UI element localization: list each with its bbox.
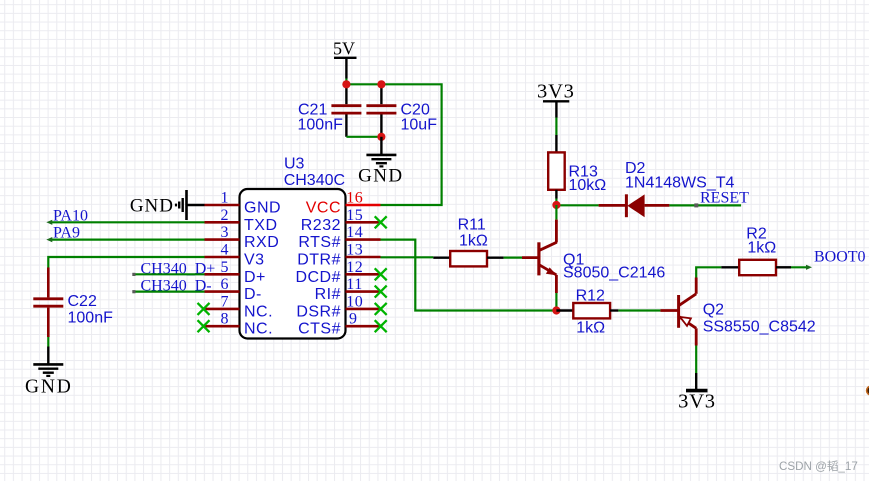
net label anchor dot RESET — [694, 203, 698, 207]
svg-text:10kΩ: 10kΩ — [569, 177, 607, 194]
svg-text:5V: 5V — [333, 39, 355, 59]
svg-text:R12: R12 — [576, 288, 605, 305]
wire Q1 emitter to node B — [555, 293, 557, 311]
svg-text:RXD: RXD — [244, 234, 279, 251]
transistor Q1 S8050 — [522, 220, 665, 293]
junction node A — [552, 201, 560, 209]
pin 14 RTS# — [298, 224, 380, 251]
svg-text:R11: R11 — [458, 217, 486, 234]
power port 3V3 top — [537, 81, 575, 118]
svg-text:1kΩ: 1kΩ — [747, 239, 776, 256]
svg-text:DCD#: DCD# — [295, 269, 341, 286]
svg-text:1kΩ: 1kΩ — [459, 233, 488, 250]
svg-text:3: 3 — [221, 224, 229, 241]
wire CH340_D- to pin 6 — [134, 291, 205, 293]
junction dot 5V rail right — [377, 80, 385, 88]
no-connect X pin 15 — [375, 216, 387, 228]
wire PA9 to pin 3 — [50, 239, 205, 241]
wire R11 to Q1 base — [504, 257, 522, 259]
junction dot 5V rail left — [342, 80, 350, 88]
svg-text:RI#: RI# — [315, 286, 341, 303]
svg-text:10uF: 10uF — [401, 117, 438, 134]
svg-text:DTR#: DTR# — [297, 252, 341, 269]
capacitor C20 — [366, 84, 437, 137]
svg-text:GND: GND — [358, 166, 403, 187]
svg-text:1kΩ: 1kΩ — [576, 320, 605, 337]
svg-text:1: 1 — [221, 190, 229, 207]
svg-text:10: 10 — [346, 293, 363, 310]
svg-text:8: 8 — [221, 311, 229, 328]
ground GND bottom left — [25, 347, 73, 398]
ground GND at pin 1 (rotated earth) — [130, 190, 205, 220]
svg-text:NC.: NC. — [244, 303, 273, 320]
wire R13 to node A — [555, 199, 557, 206]
wire CH340_D+ to pin 5 — [134, 273, 205, 275]
transistor Q2 SS8550 — [660, 278, 815, 346]
svg-text:13: 13 — [346, 242, 363, 259]
svg-text:15: 15 — [346, 207, 363, 224]
svg-text:S8050_C2146: S8050_C2146 — [563, 265, 665, 282]
svg-text:SS8550_C8542: SS8550_C8542 — [703, 319, 816, 336]
IC U3 CH340C body — [240, 189, 346, 339]
pin 12 DCD# — [295, 259, 380, 286]
svg-text:4: 4 — [221, 242, 229, 259]
svg-text:9: 9 — [349, 311, 357, 328]
wire-end dot CH340_D+ — [132, 273, 135, 276]
svg-text:VCC: VCC — [306, 200, 341, 217]
wire top rail to pin 16 — [346, 84, 441, 205]
no-connect X pin 9 — [375, 320, 387, 332]
wire-end arrow BOOT0 — [806, 265, 812, 270]
pin 13 DTR# — [297, 242, 380, 269]
svg-text:V3: V3 — [244, 252, 265, 269]
svg-text:RESET: RESET — [700, 189, 749, 206]
pin 3 RXD — [205, 224, 280, 251]
svg-text:Q2: Q2 — [703, 302, 724, 319]
svg-text:GND: GND — [244, 200, 281, 217]
svg-text:BOOT0: BOOT0 — [814, 249, 866, 266]
svg-text:D-: D- — [244, 286, 262, 303]
svg-text:5: 5 — [221, 259, 229, 276]
svg-text:DSR#: DSR# — [296, 303, 341, 320]
wire PA10 to pin 2 — [50, 221, 205, 223]
wire node A to Q1 collector — [555, 205, 557, 220]
pin 1 GND — [205, 190, 282, 217]
wire D2 to RESET — [669, 204, 741, 206]
wire pin 14 down to node B — [381, 240, 557, 311]
wire 5V to rail — [345, 79, 347, 85]
pin 9 CTS# — [298, 311, 380, 338]
pin 11 RI# — [315, 276, 381, 303]
pin 10 DSR# — [296, 293, 380, 320]
wire Q2 collector up — [696, 267, 721, 277]
svg-text:CSDN @韬_17: CSDN @韬_17 — [779, 460, 858, 473]
svg-text:11: 11 — [346, 276, 362, 293]
wire-end arrow PA10 — [46, 220, 52, 225]
resistor R11 — [433, 217, 503, 267]
svg-text:U3: U3 — [284, 155, 305, 172]
junction node B — [552, 306, 560, 314]
svg-text:R232: R232 — [301, 217, 341, 234]
svg-text:7: 7 — [221, 293, 229, 310]
pin 2 TXD — [205, 207, 278, 234]
diode D2 — [599, 160, 735, 217]
svg-text:GND: GND — [130, 196, 174, 217]
no-connect X pin 7 — [198, 303, 210, 315]
no-connect X pin 11 — [375, 286, 387, 298]
wire Q2 emitter to 3V3 — [695, 346, 697, 374]
svg-text:3V3: 3V3 — [537, 81, 575, 103]
wire capacitor bottom rail — [346, 136, 381, 138]
no-connect X pin 12 — [375, 268, 387, 280]
power port 3V3 bottom (bar) — [678, 373, 716, 413]
svg-text:GND: GND — [25, 377, 73, 398]
capacitor C21 — [298, 84, 362, 137]
watermark logo dot — [867, 386, 869, 395]
wire pin 13 to R11 — [381, 256, 434, 258]
wire node A to D2 — [556, 204, 598, 206]
svg-text:12: 12 — [346, 259, 363, 276]
wire-end arrow PA9 — [46, 237, 52, 242]
svg-text:RTS#: RTS# — [298, 234, 341, 251]
svg-text:100nF: 100nF — [68, 310, 114, 327]
junction dot cap bottom — [377, 133, 385, 141]
wire C22 to ground — [47, 337, 49, 347]
wire R12 to Q2 base — [618, 309, 660, 311]
no-connect X pin 8 — [198, 320, 210, 332]
wire pin 4 to C22 — [48, 257, 204, 268]
svg-text:2: 2 — [221, 207, 229, 224]
pin 15 R232 — [301, 207, 381, 234]
ground GND top — [358, 137, 403, 187]
svg-text:CTS#: CTS# — [298, 321, 341, 338]
svg-text:6: 6 — [221, 276, 229, 293]
pin 7 NC — [205, 293, 274, 320]
svg-text:3V3: 3V3 — [678, 391, 716, 413]
resistor R2 — [721, 226, 791, 276]
no-connect X pin 10 — [375, 303, 387, 315]
svg-text:100nF: 100nF — [298, 117, 344, 134]
capacitor C22 — [33, 268, 113, 338]
svg-text:16: 16 — [346, 190, 363, 207]
svg-text:14: 14 — [346, 224, 363, 241]
wire R2 to BOOT0 — [791, 266, 808, 268]
svg-text:CH340C: CH340C — [284, 172, 345, 189]
power port 5V — [333, 39, 357, 79]
svg-text:C22: C22 — [68, 293, 97, 310]
pin 5 D+ — [205, 259, 266, 286]
svg-text:NC.: NC. — [244, 321, 273, 338]
resistor R13 — [548, 135, 606, 199]
svg-text:TXD: TXD — [244, 217, 278, 234]
wire 3V3 to R13 — [555, 118, 557, 136]
wire-end dot CH340_D- — [132, 290, 135, 293]
pin 8 NC — [205, 311, 274, 338]
pin 16 VCC — [306, 190, 381, 217]
resistor R12 — [556, 288, 618, 337]
pin 4 V3 — [205, 242, 265, 269]
pin 6 D- — [205, 276, 262, 303]
svg-text:D+: D+ — [244, 269, 266, 286]
